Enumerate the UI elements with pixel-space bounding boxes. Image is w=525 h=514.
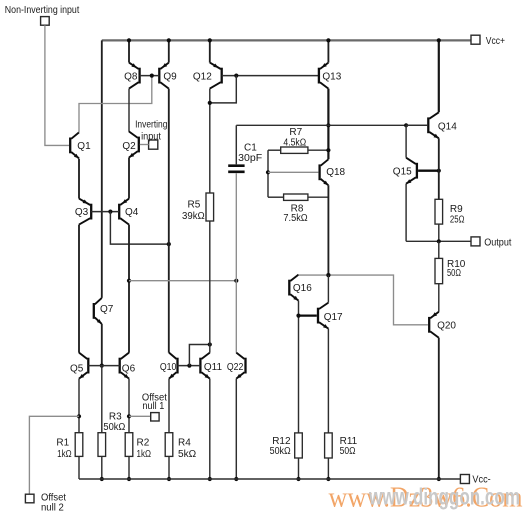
node junction [234,74,238,78]
wire Q7 emitter to Q5/Q6 bases [101,324,103,366]
svg-text:Q4: Q4 [125,207,139,218]
wire Q3 collector to Q5 collector [78,225,80,353]
wire Q17 base [299,315,317,317]
wire Q16 emitter down to R12 [298,301,300,433]
svg-text:Vcc+: Vcc+ [486,36,505,47]
svg-text:Q13: Q13 [322,71,341,82]
node junction [208,38,212,42]
node junction [326,273,330,277]
node junction [326,273,330,277]
wire [268,196,284,198]
svg-text:30pF: 30pF [238,153,262,164]
svg-text:R3: R3 [109,412,122,423]
node junction [234,279,238,283]
svg-text:Q12: Q12 [193,71,212,82]
transistor Q11 [200,353,209,379]
wire Q16 coll/Q17 coll to Q20 base [299,275,428,325]
svg-text:Non-Inverting input: Non-Inverting input [5,5,80,16]
wire Q10-Q11 base link [178,365,201,367]
wire Q6 emitter down [128,379,130,433]
resistor R1 [75,433,83,457]
wire R10 to Q20 emitter [438,284,440,312]
transistor Q15 [406,158,417,184]
wire base tie to Q11 collector [189,345,209,366]
wire first stage output to C1/Q22 [129,280,236,282]
node junction [208,342,212,346]
svg-text:Q16: Q16 [293,283,312,294]
wire Q15 emitter to output line [405,184,407,242]
wire Q12-Q13 base link [222,75,319,77]
svg-text:Q1: Q1 [77,141,91,152]
svg-text:39kΩ: 39kΩ [182,211,205,222]
transistor Q13 [319,63,329,89]
resistor R8 [284,194,308,200]
wire [308,149,329,151]
node junction [100,477,104,481]
Vcc- terminal [460,475,469,484]
Offset null 1 terminal [151,413,159,421]
svg-text:5kΩ: 5kΩ [178,449,197,460]
wire [168,456,170,479]
wire Q4 collector to Q6 collector [128,225,130,353]
wire Q1 collector to Q8/Q9 bases [79,76,152,133]
svg-text:Q18: Q18 [326,167,345,178]
wire Q2 emitter to Q4 emitter [128,158,130,199]
wire R5 to Q12 collector [209,89,211,193]
wire Q11 emitter down [209,379,211,479]
svg-text:R2: R2 [137,438,150,449]
wire Q11 collector up to R5 [209,221,211,353]
svg-text:Q10: Q10 [160,362,177,373]
resistor R4 [165,433,173,457]
wire Q17 collector up [327,275,329,303]
node junction [167,477,171,481]
transistor Q5 [79,353,88,379]
node junction [326,148,330,152]
wire [406,124,427,126]
node junction [127,414,131,418]
transistor Q9 [159,63,169,89]
resistor R12 [295,433,303,458]
transistor Q3 [79,199,91,225]
wire Q10 emitter to R4 [168,379,170,433]
svg-text:null 2: null 2 [41,502,64,513]
node junction [326,123,330,127]
resistor R2 [125,433,133,457]
wire Q1 emitter to Q3 emitter [78,159,80,199]
svg-text:Q15: Q15 [393,167,412,178]
wire Q8 collector to Q2 collector [128,89,130,132]
svg-text:Q7: Q7 [100,304,114,315]
wire R7/R8 left link [267,150,269,197]
wire output to R10 [438,241,440,258]
transistor Q7 [94,298,102,324]
svg-text:1kΩ: 1kΩ [57,449,72,460]
wire Q8 emitter to rail [128,40,130,62]
node junction [326,477,330,481]
node junction [150,74,154,78]
svg-text:null 1: null 1 [142,401,164,412]
resistor R9 [435,199,443,224]
node junction [127,279,131,283]
transistor Q4 [119,199,129,225]
wire Q9 emitter to rail [168,40,170,62]
svg-text:4.5kΩ: 4.5kΩ [283,137,306,148]
wire top rail Vcc+ [102,39,471,41]
wire Q17 emitter to R11 [327,329,329,433]
svg-text:50kΩ: 50kΩ [270,446,292,457]
wire Q2 base to inverting input [140,144,149,146]
svg-text:Q5: Q5 [70,363,84,374]
svg-text:Q17: Q17 [324,312,343,323]
node junction [437,169,441,173]
wire Q18 base [268,171,318,173]
node junction [108,210,112,214]
transistor Q17 [318,303,328,329]
node junction [404,123,408,127]
capacitor C1 [235,125,237,164]
node junction [208,101,212,105]
resistor R5 [206,193,214,221]
wire Q8-Q9 base link [140,75,160,77]
transistor Q1 [70,132,79,158]
node junction [296,477,300,481]
wire [327,458,329,479]
wire base node to R3 [101,366,103,433]
wire compensation node line to Q14 base [236,124,427,126]
svg-text:25Ω: 25Ω [450,214,465,225]
node junction [266,170,270,174]
wire [128,456,130,479]
svg-text:Q8: Q8 [124,71,138,82]
wire Q22 emitter down [235,379,237,479]
wire Q14 collector to rail [438,40,440,112]
wire Q3/Q4 bases to Q9 collector [110,212,168,245]
transistor Q12 [210,63,222,89]
svg-text:Q22: Q22 [227,362,244,373]
svg-text:Inverting: Inverting [135,120,167,131]
Inverting input terminal [149,140,158,149]
Output terminal [471,237,480,246]
transistor Q18 [320,159,329,185]
wire Q12 base-collector tie [210,76,237,103]
wire Q14 emitter to R9 [438,138,440,199]
transistor Q6 [120,353,129,379]
node junction [437,38,441,42]
svg-text:R5: R5 [188,200,201,211]
wire Q15 collector to Q14 base node [405,125,407,157]
svg-text:Q20: Q20 [437,321,456,332]
transistor Q14 [428,112,439,138]
transistor Q8 [129,63,140,89]
resistor R3 [98,433,106,457]
wire [438,224,440,241]
node junction [167,242,171,246]
wire output line [406,240,471,242]
node junction [234,477,238,481]
Offset null 2 terminal [25,494,34,503]
wire Q3-Q4 base link [91,211,119,213]
transistor Q2 [129,132,139,158]
transistor Q10 [169,353,178,379]
node junction [296,314,300,318]
wire Q12 emitter to rail [209,40,211,62]
node junction [77,414,81,418]
svg-text:Q2: Q2 [122,141,136,152]
transistor Q16 [289,275,298,301]
wire C1 bottom to Q22 collector [235,173,237,353]
svg-text:Q9: Q9 [163,71,177,82]
wire non-inv input to Q1 base [45,25,69,145]
svg-text:Q3: Q3 [75,207,89,218]
wire Q20 collector to Vcc- [438,338,440,479]
svg-text:50Ω: 50Ω [447,268,461,279]
svg-text:50kΩ: 50kΩ [103,422,125,433]
node junction [187,364,191,368]
svg-text:Q14: Q14 [438,121,457,132]
wire [78,456,80,479]
wire Q5-Q6 base link [88,365,119,367]
node junction [437,239,441,243]
svg-text:50Ω: 50Ω [340,446,356,457]
wire Q5 emitter down [78,379,80,433]
Non-Inverting input terminal [41,17,50,26]
wire Q9 collector down to Q10 collector [168,89,170,353]
node junction [208,477,212,481]
node junction [127,477,131,481]
wire to offset null 1 [129,415,151,417]
resistor R10 [435,258,443,283]
node junction [100,364,104,368]
node junction [127,38,131,42]
wire to offset null 2 [29,416,79,494]
wire [418,169,439,171]
wire Q18 emitter down to Q17 collector [327,185,329,275]
node junction [437,477,441,481]
wire bottom rail Vcc- [79,478,460,480]
svg-text:www.dinggon.com: www.dinggon.com [368,484,520,510]
resistor R7 [281,147,308,153]
resistor R11 [325,433,333,458]
wire Q13 collector down [327,89,329,160]
wire [268,149,281,151]
wire Q13 emitter to rail [327,40,329,62]
wire [298,458,300,479]
svg-text:Q6: Q6 [122,364,136,375]
transistor Q22 [236,353,245,379]
node junction [167,38,171,42]
svg-text:1kΩ: 1kΩ [137,449,152,460]
svg-text:R1: R1 [56,438,69,449]
svg-text:7.5kΩ: 7.5kΩ [283,213,308,224]
transistor Q20 [429,312,439,338]
svg-text:Output: Output [484,238,511,249]
svg-text:input: input [141,131,161,142]
wire [101,456,103,479]
svg-text:Q11: Q11 [204,362,223,373]
node junction [326,38,330,42]
svg-text:R4: R4 [178,438,191,449]
wire left rail down to Q7 collector [101,40,103,298]
Vcc+ terminal [471,35,480,44]
wire [308,196,329,198]
